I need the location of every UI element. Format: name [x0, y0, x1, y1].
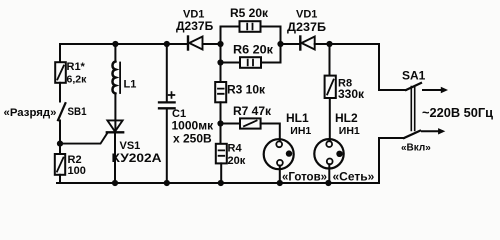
- svg-text:«Сеть»: «Сеть»: [333, 170, 375, 184]
- resistor R4: [216, 144, 227, 164]
- svg-text:Д237Б: Д237Б: [287, 20, 326, 34]
- node R5R6 left: [217, 41, 223, 47]
- svg-text:SB1: SB1: [68, 106, 87, 118]
- svg-text:«Разряд»: «Разряд»: [4, 107, 57, 119]
- svg-text:R1*: R1*: [67, 61, 86, 73]
- wire top rail left segment: [60, 43, 187, 45]
- node C1 bottom: [164, 180, 170, 186]
- node gate junction: [57, 141, 63, 147]
- node R8 top: [326, 41, 332, 47]
- svg-text:1000мк: 1000мк: [172, 118, 215, 132]
- svg-text:х 250В: х 250В: [173, 131, 212, 145]
- node HL2 bottom: [325, 180, 331, 186]
- svg-text:HL1: HL1: [286, 111, 309, 125]
- svg-text:VD1: VD1: [296, 8, 317, 20]
- node R5R6 right: [277, 41, 283, 47]
- wire R7 to HL1: [261, 124, 280, 142]
- wire L1 to VS1: [114, 94, 116, 133]
- svg-text:20к: 20к: [228, 155, 246, 167]
- wire R6 right branch: [261, 62, 281, 64]
- node R3 R7 R4 junction: [217, 120, 223, 126]
- switch SA1 linkage: [411, 87, 414, 131]
- capacitor C1: [159, 44, 175, 183]
- wire HL1 to bottom rail: [279, 166, 281, 183]
- inductor L1: [112, 62, 120, 94]
- wire HL2 to bottom rail: [328, 164, 330, 183]
- lamp HL1: [264, 139, 294, 169]
- svg-text:R5 20к: R5 20к: [230, 6, 269, 20]
- svg-text:6,2к: 6,2к: [67, 74, 88, 86]
- wire R5 left branch: [221, 26, 240, 28]
- svg-text:~220В 50Гц: ~220В 50Гц: [422, 106, 493, 120]
- wire right riser: [280, 27, 282, 63]
- resistor R8: [325, 76, 336, 98]
- diode VD1 right: [300, 37, 314, 50]
- wire R2 to bottom rail: [59, 175, 61, 183]
- svg-text:ИН1: ИН1: [290, 125, 311, 137]
- node VS1 cathode bottom: [112, 180, 118, 186]
- resistor R2: [55, 154, 65, 175]
- wire feed to SA1: [378, 44, 380, 90]
- svg-text:SA1: SA1: [402, 69, 426, 83]
- svg-text:330к: 330к: [338, 87, 365, 101]
- wire R6 left branch: [221, 62, 241, 64]
- wire bottom rail: [57, 182, 379, 184]
- resistor R3: [215, 82, 226, 102]
- node L1 top: [112, 41, 118, 47]
- svg-text:L1: L1: [124, 79, 137, 91]
- wire R8 to HL2: [329, 98, 331, 141]
- wire R3 to node: [220, 102, 222, 123]
- svg-text:R6 20к: R6 20к: [233, 43, 274, 57]
- wire diode1 to node: [203, 43, 221, 45]
- thyristor VS1: [60, 120, 123, 183]
- diode VD1 left: [188, 37, 203, 50]
- svg-text:КУ202А: КУ202А: [112, 151, 162, 165]
- wire L1 top lead: [114, 44, 116, 62]
- wire R8 lead top: [329, 44, 331, 76]
- wire R5 right branch: [261, 26, 281, 28]
- svg-text:«Вкл»: «Вкл»: [401, 143, 431, 154]
- resistor R7: [240, 118, 261, 128]
- svg-text:Д237Б: Д237Б: [176, 19, 214, 33]
- wire SB1 to gate node: [59, 121, 61, 144]
- svg-text:HL2: HL2: [335, 111, 358, 125]
- wire left riser: [220, 27, 222, 83]
- wire node to R4: [220, 124, 222, 144]
- resistor R1: [55, 62, 66, 83]
- wire top rail right segment: [315, 43, 379, 45]
- svg-text:100: 100: [68, 165, 86, 177]
- node R4 bottom: [218, 180, 224, 186]
- wire left column top (to R1): [59, 44, 61, 62]
- node R6 left junction: [217, 59, 223, 65]
- wire R4 to bottom rail: [220, 163, 222, 183]
- switch SA1 pole 1: [379, 83, 421, 90]
- switch SB1: [58, 103, 65, 120]
- lamp HL2: [314, 139, 343, 168]
- svg-text:ИН1: ИН1: [339, 125, 360, 137]
- wire arrow to mains top: [423, 87, 448, 93]
- wire SA1 pole2 to bottom rail: [378, 138, 380, 183]
- wire R1 to SB1: [59, 83, 61, 102]
- node C1 top: [164, 41, 170, 47]
- wire node to diode2: [281, 43, 301, 45]
- resistor R6: [240, 57, 261, 68]
- svg-text:R7 47к: R7 47к: [233, 104, 272, 118]
- wire arrow to mains bottom: [422, 128, 445, 134]
- svg-text:«Готов»: «Готов»: [282, 171, 327, 183]
- svg-text:R3 10к: R3 10к: [227, 83, 266, 97]
- switch SA1 pole 2: [379, 131, 420, 138]
- resistor R5: [240, 21, 261, 32]
- wire node to R2: [59, 144, 61, 154]
- svg-text:R4: R4: [228, 142, 243, 154]
- node HL1 bottom: [277, 180, 283, 186]
- wire node to R7: [221, 123, 241, 125]
